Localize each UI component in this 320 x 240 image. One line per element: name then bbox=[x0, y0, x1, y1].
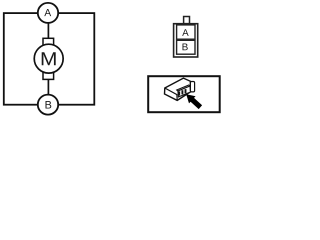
plug body crease top/left-front bbox=[165, 88, 177, 100]
plug 3d body silhouette bbox=[165, 78, 191, 100]
connector icon outer body bbox=[174, 24, 198, 57]
toolbar button frame bbox=[148, 76, 220, 112]
node A label bbox=[44, 9, 51, 16]
plug socket pin 1 bbox=[178, 91, 180, 95]
node B label bbox=[46, 101, 52, 108]
plug socket pin 3 bbox=[185, 89, 187, 93]
connector icon pin box B bbox=[177, 40, 195, 54]
plug socket block front face bbox=[178, 86, 191, 97]
plug socket block top face bbox=[177, 85, 190, 91]
connector icon tab bbox=[184, 17, 190, 24]
node A terminal circle bbox=[38, 3, 58, 23]
node B terminal circle bbox=[38, 95, 58, 115]
motor M1 label M bbox=[42, 52, 56, 65]
wire from motor to node B bbox=[47, 79, 49, 96]
connector icon pin box A bbox=[177, 25, 195, 39]
wire loop rectangle bbox=[4, 13, 95, 105]
connector icon pin label A bbox=[182, 29, 188, 36]
motor M1 top brush terminal bbox=[43, 38, 54, 47]
motor M1 body bbox=[34, 44, 63, 73]
plug nose tip face bbox=[190, 82, 194, 92]
mouse cursor arrow bbox=[186, 94, 202, 109]
wire from node A to motor bbox=[47, 23, 49, 40]
plug socket pin 2 bbox=[181, 90, 183, 94]
connector icon pin label B bbox=[183, 44, 188, 51]
motor M1 bottom brush terminal bbox=[43, 71, 54, 80]
